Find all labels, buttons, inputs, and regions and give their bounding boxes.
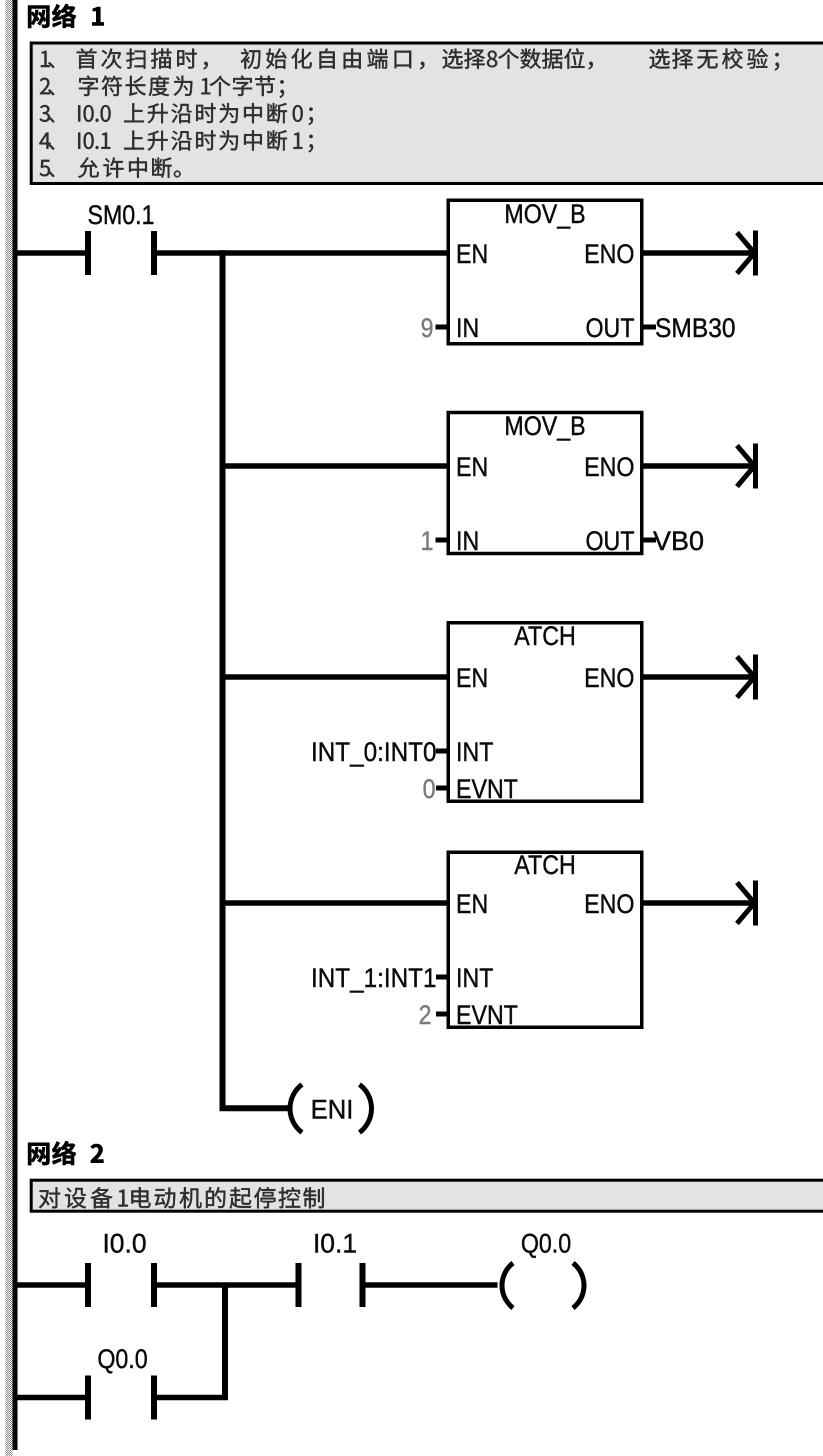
svg-text:I0.1: I0.1 [313, 1228, 357, 1258]
svg-text:EN: EN [456, 452, 488, 482]
svg-text:ENO: ENO [584, 663, 634, 693]
svg-text:EN: EN [456, 663, 488, 693]
svg-text:INT: INT [456, 737, 493, 767]
svg-text:SM0.1: SM0.1 [87, 200, 154, 230]
svg-text:IN: IN [456, 526, 479, 556]
svg-text:SMB30: SMB30 [655, 314, 736, 343]
svg-text:EN: EN [456, 239, 488, 269]
svg-text:2: 2 [419, 1000, 432, 1030]
svg-text:ENO: ENO [584, 452, 634, 482]
svg-text:Q0.0: Q0.0 [97, 1344, 147, 1374]
svg-text:ENI: ENI [311, 1094, 354, 1125]
svg-text:0: 0 [423, 774, 436, 804]
svg-text:EVNT: EVNT [456, 774, 518, 804]
svg-text:I0.0: I0.0 [102, 1228, 146, 1258]
svg-text:ATCH: ATCH [514, 621, 575, 651]
svg-text:IN: IN [456, 313, 479, 343]
svg-text:Q0.0: Q0.0 [521, 1229, 571, 1259]
svg-text:EVNT: EVNT [456, 1000, 518, 1030]
svg-text:EN: EN [456, 889, 488, 919]
svg-text:INT: INT [456, 963, 493, 993]
svg-text:INT_1:INT1: INT_1:INT1 [311, 964, 437, 993]
svg-text:INT_0:INT0: INT_0:INT0 [311, 738, 437, 767]
svg-text:OUT: OUT [585, 313, 634, 343]
svg-text:ATCH: ATCH [514, 850, 575, 880]
svg-text:ENO: ENO [584, 239, 634, 269]
svg-text:MOV_B: MOV_B [504, 411, 585, 441]
svg-text:1: 1 [421, 526, 434, 556]
svg-text:9: 9 [421, 313, 434, 343]
svg-text:VB0: VB0 [653, 526, 704, 556]
svg-text:OUT: OUT [585, 526, 634, 556]
svg-text:ENO: ENO [584, 889, 634, 919]
svg-text:MOV_B: MOV_B [504, 199, 585, 229]
